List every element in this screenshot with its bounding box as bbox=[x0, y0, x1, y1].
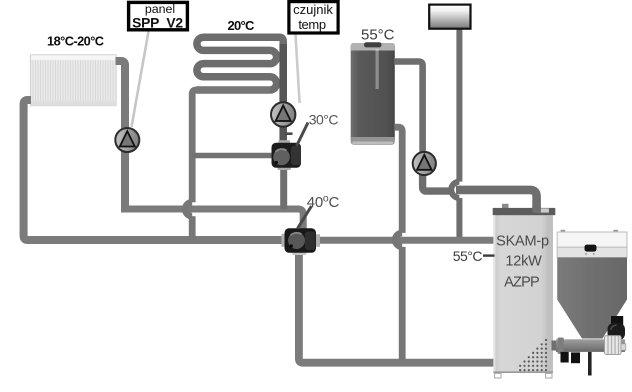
coupling bbox=[605, 336, 622, 355]
svg-text:55°C: 55°C bbox=[453, 248, 483, 264]
pellet hopper bbox=[552, 230, 628, 376]
hop arc at (192,209) bbox=[185, 202, 192, 216]
wire tank top port to pump P3 riser bbox=[395, 62, 423, 153]
svg-text:40oC: 40oC bbox=[307, 192, 340, 211]
radiator bbox=[30, 55, 116, 106]
wire expansion tank drop x=456.5 with jog hop at y=191 bbox=[456, 27, 462, 182]
wire tank lower port drop x=402 to bottom main, hop over y=240 bbox=[395, 127, 402, 233]
wire radiator supply: top-right elbow down through pump P1 to return manifold bbox=[116, 61, 126, 209]
auger tube bbox=[552, 341, 558, 351]
svg-text:czujnik: czujnik bbox=[293, 2, 333, 17]
leader 30C to valve V1 bbox=[297, 123, 309, 147]
wire jog to boiler top inlet bbox=[456, 190, 537, 210]
support leg bbox=[588, 352, 592, 376]
svg-text:AZPP: AZPP bbox=[504, 274, 539, 290]
wire coil return drop x=192 down to y=240 with hop over y=209 pipe bbox=[192, 90, 270, 202]
feeder motor bbox=[611, 316, 623, 325]
perforation dots bbox=[519, 339, 547, 371]
mixing valve V1 30C bbox=[272, 140, 302, 170]
wire return manifold horizontal y=209 to mixing valve V2 top bbox=[121, 209, 303, 231]
pump P2 bbox=[271, 102, 295, 126]
floor heating coil bbox=[196, 37, 283, 108]
svg-text:panel: panel bbox=[145, 2, 175, 16]
label panel SPP V2 bbox=[129, 2, 188, 30]
svg-text:SKAM-p: SKAM-p bbox=[496, 233, 549, 249]
leader line panel box to P1 bbox=[132, 32, 149, 128]
leader 40C to valve V2 bbox=[298, 206, 312, 229]
svg-text:55°C: 55°C bbox=[361, 27, 395, 44]
buffer tank 55C bbox=[351, 42, 395, 145]
expansion tank bbox=[429, 5, 470, 29]
wire pump P3 outlet down, elbow right to expansion drop bbox=[423, 172, 454, 191]
pump P3 bbox=[413, 152, 436, 175]
svg-text:20°C: 20°C bbox=[228, 18, 256, 33]
label czujnik temp bbox=[289, 2, 338, 33]
wire valve V1 bottom port down to manifold y=209 bbox=[280, 165, 287, 209]
leader line czujnik box to P2 bbox=[296, 35, 300, 104]
svg-text:30°C: 30°C bbox=[309, 111, 339, 127]
sensor stub below pump P2 bbox=[285, 132, 293, 135]
gearbox black boxes bbox=[561, 352, 569, 363]
wire radiator return: left side down then long horizontal y=240 to valve V2 left bbox=[24, 100, 286, 240]
svg-text:temp: temp bbox=[298, 17, 325, 32]
boiler SKAM-p bbox=[493, 204, 556, 378]
wire valve V2 bottom drop to bottom return main bbox=[299, 250, 495, 363]
svg-text:12kW: 12kW bbox=[505, 253, 542, 269]
svg-text:SPP V2: SPP V2 bbox=[132, 15, 183, 30]
pump P1 bbox=[115, 128, 139, 152]
mixing valve V2 40C bbox=[282, 228, 321, 255]
svg-text:18°C-20°C: 18°C-20°C bbox=[47, 34, 104, 49]
wire boiler top inlet stub bbox=[532, 206, 541, 213]
wire valve V1 left port to coil return drop bbox=[192, 153, 273, 159]
hopper body + funnel bbox=[557, 258, 627, 339]
wire coil supply riser through pump P2 down to valve V1 top (darker) bbox=[279, 44, 287, 144]
wire valve V2 right port to boiler supply y=240 with hop at x=402 bbox=[315, 237, 495, 244]
